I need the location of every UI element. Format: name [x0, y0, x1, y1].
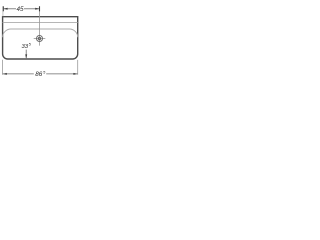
rim lower edge line — [3, 21, 78, 23]
tap hole crosshair horizontal line — [34, 38, 46, 40]
dimension 86: left extension line — [2, 60, 4, 75]
dimension 45: line left part with left arrow — [3, 8, 16, 10]
dimension 86: line right part with right arrow — [46, 73, 77, 75]
washbasin outer outline — [3, 17, 78, 59]
tap hole circle — [37, 36, 43, 42]
dimension 45: left extension line — [2, 6, 4, 16]
dimension 86: line left part with left arrow — [3, 73, 34, 75]
dimension 45: right tick — [39, 6, 41, 11]
dimension 45: line right part with right arrow — [24, 8, 39, 10]
svg-text:86: 86 — [35, 71, 43, 78]
dimension 45: left tick — [2, 6, 4, 11]
label 33.5: leader arrow pointing down — [25, 50, 27, 59]
background — [0, 0, 80, 80]
tap hole centerline (vertical) — [39, 6, 41, 45]
dimension 86: text — [35, 69, 46, 78]
inner basin outline — [3, 29, 78, 37]
label 33.5: text — [22, 42, 32, 51]
dimension 86: right extension line — [77, 60, 79, 75]
dimension 45: text — [16, 6, 24, 13]
svg-text:45: 45 — [16, 6, 24, 13]
